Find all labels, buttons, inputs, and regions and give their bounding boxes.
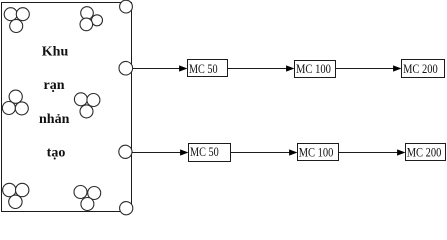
box MC 100 row2 bbox=[298, 144, 339, 161]
node top-right corner bbox=[120, 0, 133, 13]
reef cluster top-left bbox=[4, 8, 29, 33]
wire row2: MC 100 to MC 200 bbox=[339, 152, 399, 154]
box MC 50 row2 bbox=[189, 144, 231, 162]
label tao bbox=[47, 145, 66, 160]
arrowhead row1 into MC 50 bbox=[179, 65, 187, 71]
label nhan bbox=[39, 112, 70, 127]
node bottom-right corner bbox=[120, 202, 133, 215]
svg-text:tạo: tạo bbox=[47, 145, 66, 160]
svg-text:MC 50: MC 50 bbox=[189, 61, 218, 76]
arrowhead row1 into MC 200 bbox=[393, 65, 401, 71]
box MC 50 row1 bbox=[188, 60, 228, 77]
label Khu bbox=[42, 45, 69, 60]
svg-text:MC 200: MC 200 bbox=[407, 144, 442, 159]
label ran bbox=[44, 78, 65, 93]
wire row1: MC 100 to MC 200 bbox=[336, 68, 395, 70]
arrowhead row2 into MC 100 bbox=[289, 149, 297, 155]
box Khu ran nhan tao (artificial reef area) bbox=[2, 3, 132, 212]
wire row1: MC 50 to MC 100 bbox=[228, 68, 288, 70]
box MC 200 row1 bbox=[402, 60, 445, 78]
svg-text:MC 200: MC 200 bbox=[403, 61, 438, 76]
box MC 100 row1 bbox=[295, 61, 336, 78]
reef cluster bottom-middle bbox=[74, 186, 101, 211]
reef cluster middle bbox=[74, 93, 100, 118]
wire row1: node to MC 50 bbox=[132, 68, 180, 70]
reef cluster bottom-left bbox=[3, 183, 29, 208]
arrowhead row2 into MC 50 bbox=[180, 149, 188, 155]
svg-text:Khu: Khu bbox=[42, 45, 69, 60]
reef cluster left-middle bbox=[2, 90, 28, 115]
svg-text:nhản: nhản bbox=[39, 112, 70, 127]
svg-text:MC 100: MC 100 bbox=[299, 144, 334, 159]
svg-text:rạn: rạn bbox=[44, 78, 65, 93]
svg-text:MC 50: MC 50 bbox=[190, 144, 219, 159]
box MC 200 row2 bbox=[406, 144, 446, 161]
wire row2: node to MC 50 bbox=[132, 152, 181, 154]
node row2 port bbox=[119, 145, 132, 158]
arrowhead row1 into MC 100 bbox=[286, 65, 294, 71]
reef cluster top-middle bbox=[80, 7, 103, 31]
svg-text:MC 100: MC 100 bbox=[296, 61, 331, 76]
node row1 port bbox=[119, 61, 133, 75]
arrowhead row2 into MC 200 bbox=[397, 149, 405, 155]
wire row2: MC 50 to MC 100 bbox=[231, 152, 291, 154]
